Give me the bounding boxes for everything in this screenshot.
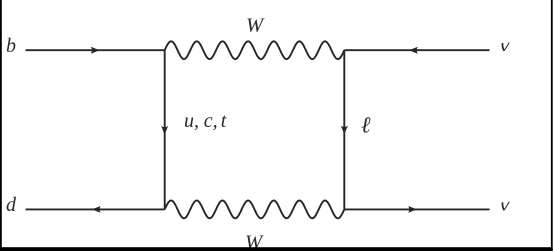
wire: nu-bar top outgoing line [344, 49, 489, 51]
svg-text:W: W [246, 15, 265, 37]
frame bottom border [0, 247, 553, 251]
svg-text:t: t [221, 110, 227, 132]
svg-text:u,: u, [184, 110, 199, 132]
wire: W boson top wavy line [165, 41, 345, 59]
wire: W boson bottom wavy line [165, 201, 345, 219]
wire: internal lepton line right [343, 50, 345, 209]
arrow on d line (left) [92, 206, 101, 213]
svg-text:d: d [6, 194, 17, 216]
arrow on left internal line (down) [161, 126, 168, 135]
wire: internal quark line left (u,c,t) [164, 50, 166, 209]
arrow on b line (right) [91, 47, 100, 54]
arrow on right internal line (down) [341, 126, 348, 135]
wire: nu bottom outgoing line [344, 208, 489, 210]
wire: d quark line [26, 208, 165, 210]
arrow on bottom nu line (right) [408, 206, 417, 213]
label nu bottom [502, 202, 509, 210]
svg-text:c,: c, [204, 110, 218, 132]
svg-text:b: b [6, 35, 16, 57]
wire: b quark incoming line [26, 49, 165, 51]
arrow on top nu line (left) [409, 47, 418, 54]
frame left border [0, 0, 2, 251]
svg-text:ℓ: ℓ [361, 113, 371, 138]
frame right border [551, 0, 553, 251]
label nu top [502, 43, 509, 51]
